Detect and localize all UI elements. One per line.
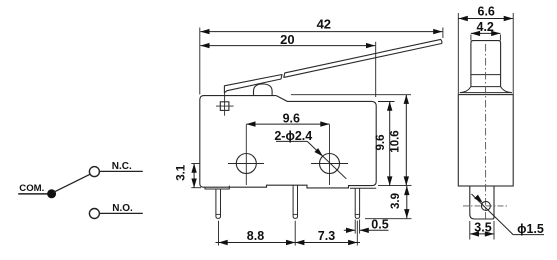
leader phi1.5 — [472, 194, 545, 235]
right pin tab line — [350, 187, 376, 189]
wire N.C. lead — [100, 170, 143, 172]
svg-text:9.6: 9.6 — [283, 111, 300, 125]
side plunger — [471, 41, 501, 87]
switch body outline — [200, 96, 376, 188]
extension line left (42/20) — [199, 28, 201, 95]
pin 3 crimp line — [355, 213, 359, 215]
dimension 10.6 — [405, 95, 407, 186]
lever right segment — [284, 39, 442, 77]
pin 3 (right terminal) — [355, 188, 359, 218]
extension line 6.6 left — [457, 13, 459, 94]
leader 2-phi2.4 diagonal — [307, 141, 346, 178]
extension line 9.6 top — [378, 101, 395, 103]
dimension 8.8 / 7.3 bottom line — [216, 242, 361, 244]
collar top line — [471, 86, 501, 88]
extension line 6.6 right — [512, 13, 514, 94]
left pin tab — [205, 186, 229, 189]
extension line 3.5 right — [493, 221, 495, 240]
svg-text:42: 42 — [317, 17, 331, 32]
extension line 10.6 top — [291, 94, 411, 96]
right circle vertical centerline / extension — [329, 125, 331, 186]
dimension 3.9 — [406, 186, 408, 218]
wire N.O. lead — [100, 212, 143, 214]
dimension 4.2 — [471, 32, 501, 34]
side body outline — [458, 95, 513, 186]
dimension 20 — [200, 45, 375, 47]
square hole centerline vertical — [224, 93, 226, 116]
leader 2-phi2.4 underline — [276, 140, 307, 142]
svg-text:N.C.: N.C. — [112, 161, 132, 172]
svg-text:3.1: 3.1 — [176, 164, 188, 181]
body top edge under dome — [250, 95, 276, 97]
node COM (common pole, filled) — [47, 189, 56, 198]
dimension 3.1 — [193, 164, 195, 188]
side bottom terminal tab — [470, 186, 494, 219]
contact N.O. terminal circle — [89, 209, 99, 219]
collar base line — [460, 92, 512, 94]
pin 1 crimp line — [216, 213, 221, 215]
terminal hole horizontal centerline — [463, 205, 508, 207]
mounting square hole — [220, 102, 229, 111]
extension line 3.1 bottom (body bottom extended) — [191, 187, 201, 189]
svg-text:8.8: 8.8 — [247, 229, 264, 243]
svg-text:3.9: 3.9 — [390, 193, 402, 209]
extension ticks 4.2 — [471, 35, 501, 41]
extension line 9.6/10.6 bottom — [378, 185, 412, 187]
svg-text:10.6: 10.6 — [389, 130, 401, 152]
svg-text:3.5: 3.5 — [474, 221, 491, 235]
dimension 42 — [200, 31, 442, 33]
left circle horizontal centerline — [228, 163, 264, 165]
left circle vertical centerline / extension — [245, 125, 247, 186]
plunger step line — [471, 74, 501, 76]
extension line 3.9 bottom — [365, 218, 412, 220]
svg-text:7.3: 7.3 — [318, 229, 335, 243]
svg-text:N.O.: N.O. — [112, 203, 133, 214]
svg-text:ϕ1.5: ϕ1.5 — [517, 222, 544, 236]
wire COM lead — [18, 193, 48, 195]
side centerline (dash-dot) — [485, 44, 487, 219]
extension line 3.5 left — [469, 221, 471, 240]
pin 2 crimp line — [293, 213, 297, 215]
dimension 9.6 (hole spacing) — [246, 123, 329, 125]
svg-text:9.6: 9.6 — [375, 135, 387, 151]
pin 2 (middle terminal) — [293, 185, 297, 218]
extension line 3.1 top (hole centerline extended) — [191, 163, 199, 165]
svg-text:4.2: 4.2 — [477, 20, 494, 34]
lever left segment — [224, 75, 282, 93]
extension line pin1 — [218, 221, 220, 246]
extension line pin2 — [294, 221, 296, 246]
square hole centerline horizontal — [216, 105, 234, 107]
wire lever arm COM to N.C. — [54, 174, 91, 192]
dimension 0.5 (pin thickness) — [355, 220, 359, 234]
collar left flare — [460, 87, 471, 93]
contact N.C. terminal circle — [89, 167, 99, 177]
extension line right of 20 — [375, 42, 377, 97]
dimension 3.5 — [470, 233, 494, 235]
mounting hole right circle — [320, 154, 340, 174]
extension line right of 42 — [442, 28, 444, 39]
mounting hole left circle — [236, 154, 256, 174]
dimension 9.6 right (body height) — [389, 102, 391, 186]
plunger dome — [254, 84, 273, 96]
collar right flare — [501, 87, 512, 93]
svg-text:6.6: 6.6 — [478, 5, 495, 19]
svg-text:0.5: 0.5 — [371, 218, 388, 232]
right circle horizontal centerline — [311, 163, 348, 165]
pin 1 (left terminal) — [216, 189, 221, 218]
dimension 6.6 — [458, 18, 513, 20]
svg-text:20: 20 — [280, 32, 294, 47]
extension line pin3 — [356, 221, 358, 246]
terminal hole circle — [481, 201, 490, 210]
svg-text:COM.: COM. — [19, 183, 44, 194]
